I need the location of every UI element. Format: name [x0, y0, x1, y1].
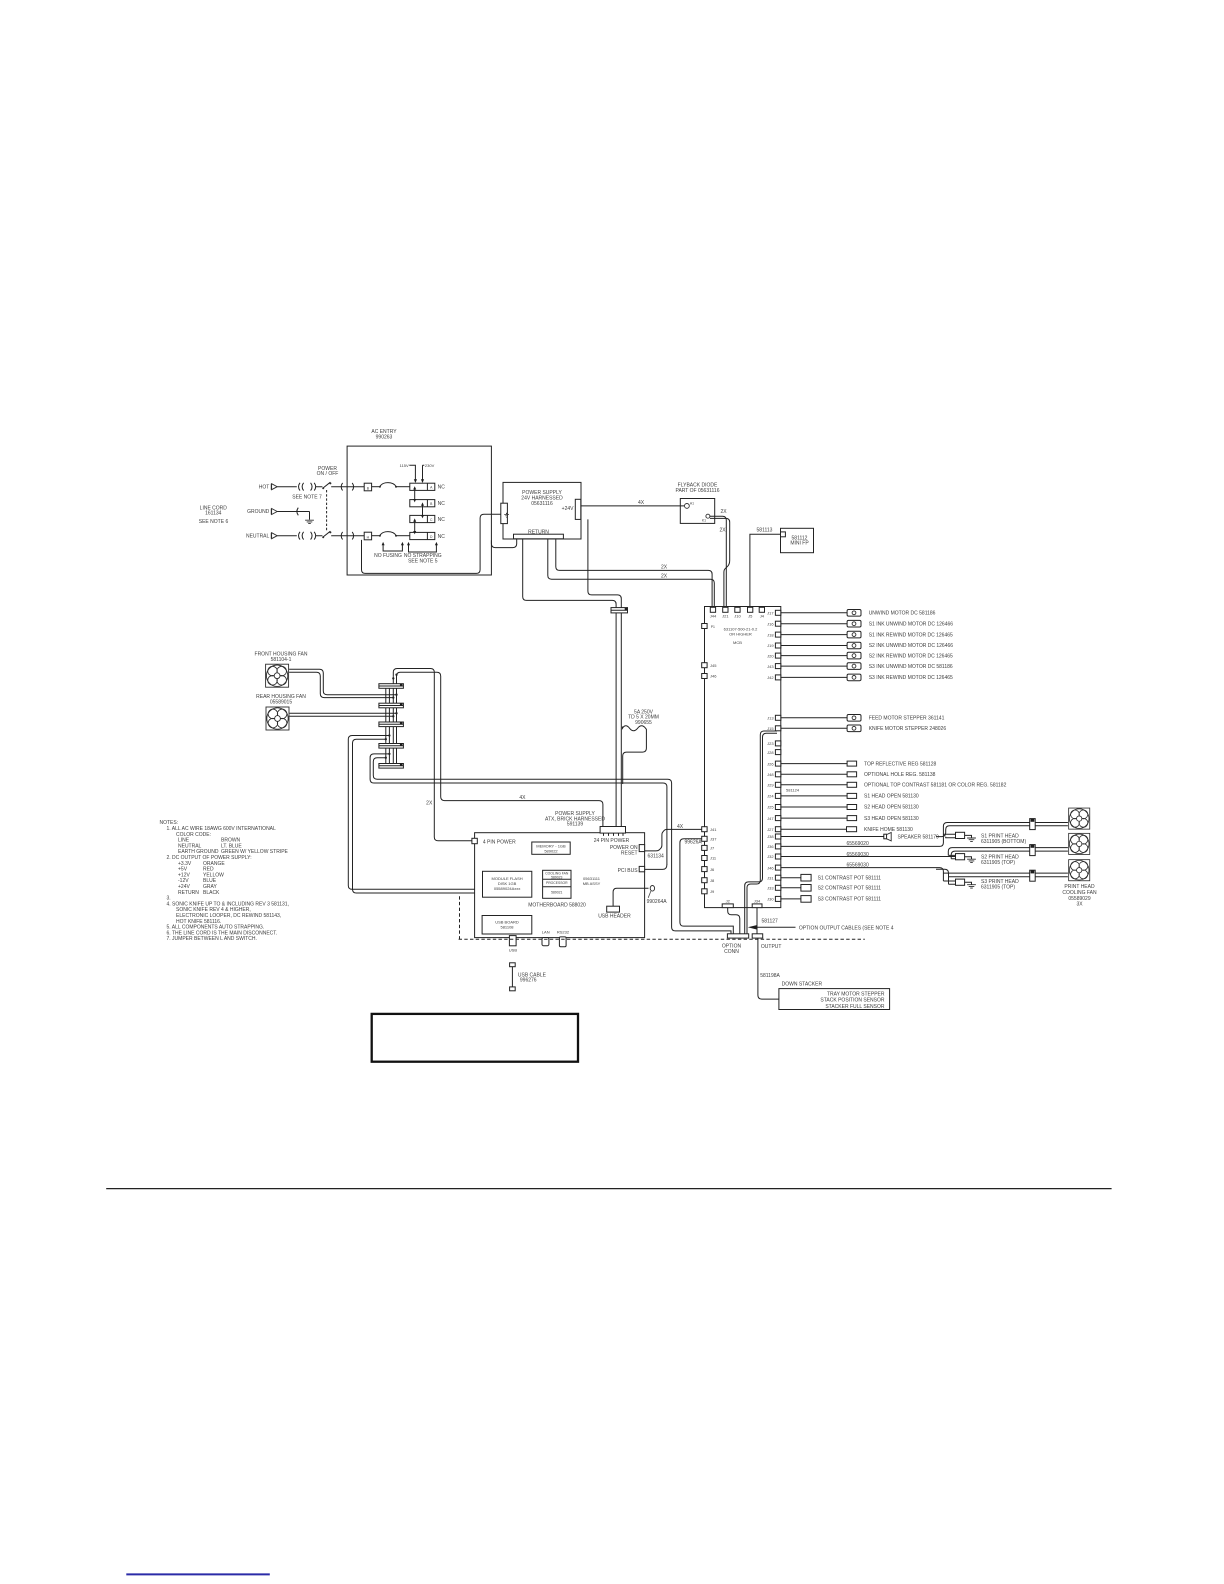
wire flyback K1 to J21 2X: [710, 509, 730, 607]
S3 print head connector: [943, 879, 1019, 890]
fuse F2 neutral: [372, 532, 410, 537]
svg-text:J34: J34: [754, 899, 761, 904]
MCB right tab J16: [767, 621, 781, 626]
optional hole reg J48: [781, 772, 936, 778]
psu return bar: [514, 534, 564, 539]
wire AC box to psu L: [362, 514, 501, 573]
svg-text:NC: NC: [438, 501, 446, 507]
S3 contrast pot J30: [781, 896, 881, 903]
wire front fan pair: [289, 669, 396, 695]
switch S1 hot pole: [316, 466, 339, 489]
svg-text:+24V: +24V: [562, 506, 574, 512]
S3 print head wires 65569030: [781, 863, 1068, 885]
chassis boundary dashed: [459, 896, 865, 939]
svg-text:J9: J9: [710, 889, 715, 894]
harness connector bar 4: [379, 744, 404, 749]
svg-text:J11: J11: [710, 856, 717, 861]
svg-text:05631116: 05631116: [531, 501, 553, 507]
S1 print head wires 65569020: [781, 823, 1068, 848]
svg-text:NC: NC: [438, 534, 446, 540]
svg-text:FEED MOTOR STEPPER 361141: FEED MOTOR STEPPER 361141: [869, 716, 945, 722]
svg-text:STACK POSITION SENSOR: STACK POSITION SENSOR: [820, 998, 884, 1004]
svg-text:J43: J43: [767, 664, 774, 669]
mini FP box 581112: [781, 528, 814, 552]
svg-text:J47: J47: [767, 816, 774, 821]
option conn block: [722, 934, 749, 955]
svg-text:NO FUSING: NO FUSING: [374, 553, 402, 559]
harness curve to 24-pin 4X drop: [397, 672, 603, 826]
svg-text:J33: J33: [767, 886, 774, 891]
svg-text:589021: 589021: [551, 891, 562, 895]
S3 ink rewind motor J42: [781, 674, 953, 681]
print head cooling fan 2: [1069, 833, 1090, 854]
MCB right tab J17: [767, 610, 781, 615]
svg-text:J18: J18: [767, 632, 774, 637]
wire ATX cable pair down: [616, 613, 621, 827]
svg-text:OUTPUT: OUTPUT: [761, 944, 782, 950]
svg-text:2X: 2X: [661, 573, 668, 579]
module flash disk box: [483, 871, 532, 897]
MCB right tab J26: [767, 761, 781, 766]
USB board 581108: [482, 916, 532, 935]
earth ground symbol: [305, 520, 314, 523]
svg-text:J29: J29: [767, 783, 774, 788]
MCB top tab J4: [759, 607, 765, 618]
wire +24V to flyback 4X: [581, 500, 685, 506]
notes text block: [160, 820, 289, 942]
strap arrow C-D: [413, 518, 416, 534]
svg-text:NC: NC: [438, 485, 446, 491]
inline connector splice neutral: [299, 532, 316, 540]
MCB right tab J13: [767, 715, 781, 720]
harness curve to 4-pin power drop: [393, 669, 472, 841]
svg-text:MB ASSY: MB ASSY: [583, 881, 601, 886]
processor cooling fan box: [543, 870, 571, 898]
svg-text:J7: J7: [710, 846, 715, 851]
wire pci bus to harness: [645, 865, 667, 870]
wire bundle to module flash pair: [348, 736, 474, 890]
svg-text:4X: 4X: [519, 795, 526, 801]
option output cables callout: [748, 925, 894, 931]
svg-text:J19: J19: [767, 643, 774, 648]
inline connector fan2 wire: [1030, 845, 1036, 856]
pci bus tab: [618, 866, 645, 874]
USB connector: [509, 936, 518, 953]
wire ground lead: [277, 512, 309, 520]
wire bundle to option pair upper: [373, 758, 731, 934]
front housing fan 581104-1: [255, 651, 308, 687]
MCB right tab J29: [767, 782, 781, 787]
wire AC box edge jog to psu bottom: [491, 539, 516, 548]
svg-text:DOWN STACKER: DOWN STACKER: [782, 982, 823, 988]
MCB right tab J46b: [767, 865, 781, 870]
svg-text:J46: J46: [767, 865, 774, 870]
svg-text:S3 CONTRAST POT 581111: S3 CONTRAST POT 581111: [818, 897, 882, 903]
svg-text:RETURN: RETURN: [178, 890, 199, 896]
svg-text:J15: J15: [767, 726, 774, 731]
MCB right tab J32: [767, 854, 781, 859]
power supply 24V box: [503, 482, 581, 539]
svg-text:2X: 2X: [661, 565, 668, 571]
svg-text:115V: 115V: [400, 463, 409, 468]
svg-text:SPEAKER 581179: SPEAKER 581179: [898, 835, 940, 841]
terminal strip row A: [410, 483, 445, 490]
svg-text:J48: J48: [767, 772, 774, 777]
wire J34 output drop: [756, 908, 758, 934]
svg-text:STACKER FULL SENSOR: STACKER FULL SENSOR: [825, 1004, 885, 1010]
svg-text:J28: J28: [767, 750, 774, 755]
no strapping bracket: [404, 542, 442, 564]
svg-text:581127: 581127: [762, 918, 779, 924]
LAN connector: [542, 930, 550, 946]
AC entry enclosure box 990263: [347, 429, 491, 575]
splice arc ground: [297, 508, 298, 516]
inline connector splice hot: [299, 483, 316, 491]
S1 ink rewind motor J18: [781, 631, 953, 638]
footer rule: [106, 1188, 1111, 1190]
MCB left tab J46: [702, 674, 718, 679]
svg-text:7. JUMPER BETWEEN L AND SWIT: 7. JUMPER BETWEEN L AND SWITCH.: [167, 936, 257, 942]
switch S1 neutral pole: [316, 531, 332, 538]
MCB right tab J30: [767, 896, 781, 901]
MCB right tab J24: [767, 793, 781, 798]
svg-text:J44: J44: [710, 613, 717, 618]
svg-text:230V: 230V: [425, 463, 435, 468]
wire output to down stacker: [758, 938, 779, 999]
memory 1GB box 589022: [532, 842, 570, 854]
MCB left tab J7: [702, 845, 715, 850]
svg-text:MOTHERBOARD 588020: MOTHERBOARD 588020: [528, 903, 586, 909]
svg-text:581124: 581124: [786, 787, 800, 792]
S1 contrast pot J31: [781, 874, 881, 881]
svg-text:SEE NOTE 7: SEE NOTE 7: [292, 495, 322, 501]
wire psu return to ATX left: [523, 539, 616, 608]
terminal strip row B: [410, 500, 445, 507]
svg-text:USB: USB: [509, 948, 518, 953]
svg-text:3X: 3X: [1076, 902, 1083, 908]
svg-text:LAN: LAN: [542, 930, 550, 935]
harness connector bar 2: [379, 703, 404, 708]
MCB right tab J48: [767, 772, 781, 777]
connector HOT: [259, 484, 277, 491]
svg-text:P1: P1: [711, 625, 715, 629]
svg-text:J4: J4: [760, 613, 765, 618]
svg-text:SEE NOTE 5: SEE NOTE 5: [408, 558, 438, 564]
svg-text:K1: K1: [702, 518, 706, 522]
svg-text:J6: J6: [710, 867, 715, 872]
svg-text:996276: 996276: [520, 978, 537, 984]
wire neutral lead: [277, 535, 297, 537]
4 pin power tab: [472, 838, 516, 845]
RS232 connector: [557, 930, 570, 947]
wire psu +24 to ATX right: [588, 519, 621, 607]
wire J15 bus to option: [747, 731, 777, 934]
MCB right tab J31: [767, 875, 781, 880]
svg-text:J41: J41: [710, 827, 717, 832]
svg-text:J23: J23: [767, 741, 774, 746]
svg-text:S3 HEAD OPEN 581130: S3 HEAD OPEN 581130: [864, 816, 919, 822]
svg-text:J8: J8: [710, 878, 715, 883]
terminal strip row D: [410, 532, 445, 539]
fuse F1 hot: [372, 483, 410, 488]
MCB right tab J47: [767, 816, 781, 821]
MCB left tab J41: [702, 827, 718, 832]
svg-text:6311905 (TOP): 6311905 (TOP): [981, 860, 1015, 866]
svg-text:2X: 2X: [720, 528, 727, 534]
svg-text:581108: 581108: [500, 924, 514, 929]
svg-text:05589015: 05589015: [270, 700, 292, 706]
svg-text:HOT: HOT: [259, 484, 270, 490]
svg-text:581104-1: 581104-1: [271, 657, 292, 663]
wire bundle to pci pair lower: [370, 754, 667, 865]
output block: [752, 934, 781, 950]
svg-text:581198A: 581198A: [760, 973, 780, 979]
unwind motor DC connector J17: [781, 610, 936, 617]
print head cooling fan 3: [1069, 860, 1090, 881]
wire J2 to option conn: [728, 908, 740, 934]
inline connector fan1 wire: [1030, 819, 1036, 830]
svg-text:S2 INK REWIND MOTOR DC 126465: S2 INK REWIND MOTOR DC 126465: [869, 653, 953, 659]
wire rear fan pair: [290, 712, 397, 714]
svg-text:KNIFE MOTOR STEPPER 248026: KNIFE MOTOR STEPPER 248026: [869, 726, 947, 732]
svg-text:J26: J26: [767, 761, 774, 766]
MCB top tab J21: [722, 607, 729, 618]
wire return bus upper 2X: [556, 539, 712, 608]
svg-text:OPTION OUTPUT CABLES (SEE NOTE: OPTION OUTPUT CABLES (SEE NOTE 4: [799, 925, 894, 931]
harness connector bar 3: [379, 722, 404, 727]
svg-text:OR HIGHER: OR HIGHER: [729, 632, 752, 637]
MCB left tab J9: [702, 889, 715, 894]
terminal strip row C: [410, 515, 445, 522]
usb header: [598, 888, 648, 919]
MCB right tab J38: [767, 834, 781, 839]
230V select arrow: [421, 463, 435, 483]
MCB bottom tab J34: [752, 899, 762, 908]
svg-text:S3 INK REWIND MOTOR DC 126465: S3 INK REWIND MOTOR DC 126465: [869, 675, 953, 681]
svg-text:S2 INK UNWIND MOTOR DC 126466: S2 INK UNWIND MOTOR DC 126466: [869, 643, 954, 649]
svg-text:OPTIONAL TOP CONTRAST 581181: OPTIONAL TOP CONTRAST 581181 OR COLOR RE…: [864, 783, 1007, 789]
switch gang dashed link: [326, 490, 328, 531]
wire J37 99626A: [680, 839, 733, 934]
svg-text:J25: J25: [767, 805, 774, 810]
svg-text:6311905 (TOP): 6311905 (TOP): [981, 885, 1015, 891]
svg-text:591139: 591139: [567, 822, 584, 828]
flyback diode box part of 05631116: [675, 482, 719, 523]
svg-text:J42: J42: [767, 675, 774, 680]
svg-text:4 PIN POWER: 4 PIN POWER: [483, 839, 516, 845]
svg-text:J16: J16: [767, 621, 774, 626]
S2 ink unwind motor J19: [781, 642, 953, 649]
svg-text:S1 CONTRAST POT 581111: S1 CONTRAST POT 581111: [818, 875, 882, 881]
strap arrow B-C: [421, 502, 424, 518]
svg-text:581113: 581113: [757, 528, 773, 534]
24 pin power connector: [594, 827, 630, 844]
svg-text:MCB: MCB: [733, 640, 742, 645]
rear housing fan 05589015: [256, 694, 306, 730]
MCB right tab J36: [767, 844, 781, 849]
wire hot to fuse: [331, 486, 364, 488]
wire neutral to fuse: [331, 535, 364, 537]
svg-text:J36: J36: [767, 844, 774, 849]
svg-text:S2 HEAD OPEN 581130: S2 HEAD OPEN 581130: [864, 805, 919, 811]
wire power-on to J41 631134: [645, 824, 702, 860]
feed motor stepper J13: [781, 715, 945, 722]
main control board MCB 631107-500-21-0.2: [705, 607, 781, 908]
psu left connector: [501, 503, 508, 523]
S2 head open J25: [781, 805, 919, 811]
inline connector fan3 wire: [1030, 870, 1036, 881]
connector oval 990264A: [647, 886, 668, 905]
svg-text:4X: 4X: [638, 500, 645, 506]
harness connector bar 5: [379, 764, 404, 769]
MCB right tab J33: [767, 885, 781, 890]
footer link line: [126, 1573, 269, 1575]
svg-text:J2: J2: [726, 899, 731, 904]
harness connector bar 1: [379, 684, 404, 689]
svg-text:589022: 589022: [544, 849, 558, 854]
psu earth pin symbol: [504, 513, 509, 517]
MCB left tab J6: [702, 867, 715, 872]
MCB right tab J15: [767, 726, 781, 731]
svg-text:990655: 990655: [635, 720, 652, 726]
optional top contrast J29: [781, 782, 1007, 788]
svg-text:RESET: RESET: [621, 850, 638, 856]
svg-text:CONN: CONN: [724, 949, 739, 955]
svg-text:990264A: 990264A: [647, 899, 668, 905]
svg-text:S2 CONTRAST POT 581111: S2 CONTRAST POT 581111: [818, 886, 882, 892]
svg-text:ON / OFF: ON / OFF: [317, 471, 339, 477]
S1 ink unwind motor J16: [781, 620, 953, 627]
svg-text:J24: J24: [767, 794, 774, 799]
board edge connector arcs hot: [341, 483, 354, 491]
junction dots: [392, 677, 394, 679]
svg-text:RS232: RS232: [557, 930, 570, 935]
svg-text:J32: J32: [767, 854, 774, 859]
harness bundle verticals: [386, 684, 390, 768]
svg-text:J27: J27: [767, 827, 774, 832]
top reflective reg J26: [781, 761, 937, 767]
S2 contrast pot J33: [781, 885, 881, 892]
fuse 5A on ATX line: [622, 710, 659, 784]
S2 print head connector: [948, 854, 1019, 866]
USB cable 996276: [510, 963, 547, 991]
svg-text:TOP REFLECTIVE REG 581128: TOP REFLECTIVE REG 581128: [864, 761, 936, 767]
wire hot lead: [277, 486, 297, 488]
connector GROUND: [247, 509, 277, 516]
svg-text:BLACK: BLACK: [203, 890, 220, 896]
svg-text:631134: 631134: [648, 854, 665, 860]
S2 print head wires 65569030: [781, 848, 1068, 859]
svg-text:NEUTRAL: NEUTRAL: [246, 533, 270, 539]
svg-text:J45: J45: [710, 663, 717, 668]
svg-text:2X: 2X: [721, 509, 728, 515]
svg-text:GROUND: GROUND: [247, 509, 270, 515]
MCB right tab J25: [767, 805, 781, 810]
svg-text:UNWIND MOTOR DC 581186: UNWIND MOTOR DC 581186: [869, 611, 936, 617]
svg-text:990263: 990263: [376, 435, 393, 441]
blank title block rectangle: [372, 1014, 578, 1062]
svg-text:KNIFE HOME 581130: KNIFE HOME 581130: [864, 827, 913, 833]
wire mini FP to J5 581113: [750, 528, 781, 608]
svg-text:J21: J21: [722, 613, 729, 618]
svg-text:TRAY MOTOR STEPPER: TRAY MOTOR STEPPER: [827, 991, 885, 997]
svg-text:J10: J10: [734, 613, 741, 618]
svg-text:MINI FP: MINI FP: [790, 541, 809, 547]
knife home J27: [781, 827, 913, 833]
svg-text:99626A: 99626A: [685, 840, 703, 846]
line cord label: [199, 505, 229, 525]
MB assy label 05631111: [583, 876, 601, 886]
svg-text:05589024Axxx: 05589024Axxx: [494, 886, 520, 891]
ATX inline connector: [611, 608, 628, 613]
psu right connector: [575, 499, 581, 519]
svg-text:J38: J38: [767, 834, 774, 839]
svg-text:65569030: 65569030: [847, 852, 869, 858]
svg-text:161134: 161134: [205, 511, 222, 517]
power on reset tab: [610, 845, 645, 857]
svg-text:J31: J31: [767, 875, 774, 880]
svg-text:PROCESSOR: PROCESSOR: [546, 881, 568, 885]
S2 ink rewind motor J20: [781, 652, 953, 659]
wire return bus lower 2X: [548, 539, 715, 608]
svg-text:J20: J20: [767, 653, 774, 658]
svg-text:J17: J17: [767, 611, 774, 616]
115V select arrow: [400, 463, 417, 483]
MCB right tab J42: [767, 675, 781, 680]
no fusing bracket: [374, 542, 404, 559]
MCB right tab J27: [767, 827, 781, 832]
svg-text:S3 INK UNWIND MOTOR DC 581186: S3 INK UNWIND MOTOR DC 581186: [869, 664, 953, 670]
svg-text:S1 HEAD OPEN 581130: S1 HEAD OPEN 581130: [864, 794, 919, 800]
MCB left tab J45: [702, 663, 718, 668]
print head cooling fan 1: [1069, 808, 1090, 829]
svg-text:PART OF 05631116: PART OF 05631116: [675, 488, 719, 494]
S3 ink unwind motor J43: [781, 663, 953, 670]
MCB left tab J11: [702, 856, 717, 861]
down stacker box: [779, 982, 890, 1010]
print head cooling fan label: [1062, 884, 1097, 908]
MCB right tab J18: [767, 632, 781, 637]
board edge connector arcs neutral: [341, 532, 354, 540]
svg-text:24 PIN POWER: 24 PIN POWER: [594, 838, 630, 844]
MCB right tab J20: [767, 653, 781, 658]
svg-text:SEE NOTE 6: SEE NOTE 6: [199, 519, 229, 525]
svg-text:S1 INK REWIND MOTOR DC 126465: S1 INK REWIND MOTOR DC 126465: [869, 632, 953, 638]
MCB left tab J37: [702, 836, 718, 841]
svg-text:PCI BUS: PCI BUS: [618, 868, 639, 874]
svg-text:OPTIONAL HOLE REG. 581138: OPTIONAL HOLE REG. 581138: [864, 772, 936, 778]
MCB top tab J5: [748, 607, 754, 618]
MCB right tab J19: [767, 643, 781, 648]
S3 head open J47: [781, 816, 919, 822]
svg-text:J37: J37: [710, 837, 717, 842]
svg-text:J5: J5: [748, 613, 753, 618]
ATX brick power supply label 591139: [545, 811, 605, 827]
MCB right tab J23: [767, 741, 781, 746]
svg-text:65569020: 65569020: [847, 841, 869, 847]
svg-text:589023: 589023: [551, 875, 562, 879]
strap arrow A-B: [413, 486, 416, 502]
svg-text:A1: A1: [690, 501, 694, 505]
svg-text:S1 INK UNWIND MOTOR DC 126466: S1 INK UNWIND MOTOR DC 126466: [869, 621, 954, 627]
svg-text:J13: J13: [767, 716, 774, 721]
svg-text:NC: NC: [438, 517, 446, 523]
MCB right tab J28: [767, 750, 781, 755]
S1 print head connector: [943, 832, 1026, 845]
fuse holder tag B: [364, 483, 371, 491]
MCB top tab J10: [734, 607, 741, 618]
speaker 581179: [781, 833, 939, 841]
